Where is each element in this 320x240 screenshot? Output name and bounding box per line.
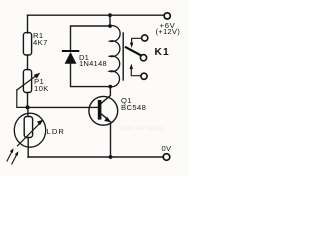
label +12V: [156, 27, 181, 36]
node coil/diode tee dot: [108, 24, 112, 28]
wire diode bottom to collector line: [71, 64, 111, 87]
terminal 0V: [163, 154, 170, 161]
label +6V: [160, 21, 176, 30]
diode D1 1N4148 cathode bar: [63, 50, 79, 52]
ghost print bleed text: [118, 125, 164, 132]
wire bottom 0V rail: [28, 156, 163, 158]
wire wiper return: [17, 90, 28, 107]
label R1: [33, 33, 48, 47]
wire junction to LDR: [27, 107, 29, 116]
diode D1 triangle: [65, 52, 77, 64]
LDR diagonal arrow: [18, 123, 41, 146]
label LDR: [47, 127, 66, 136]
relay contact top circle: [142, 35, 148, 41]
label D1: [79, 55, 107, 69]
wire tee left to diode top: [71, 26, 111, 50]
label P1: [34, 78, 49, 92]
wire left column from rail to R1: [27, 15, 29, 33]
wire P1 bottom to junction: [27, 93, 29, 108]
wire LDR bottom to 0V rail: [27, 138, 29, 158]
light arrow 1: [7, 151, 12, 161]
relay contact bottom arrow stub: [130, 64, 133, 69]
wire top rail +V: [28, 14, 164, 16]
LDR circle: [14, 113, 45, 147]
LDR resistor body: [24, 117, 32, 138]
terminal +6V: [164, 13, 170, 19]
node emitter junction dot: [109, 155, 113, 159]
transistor Q1 circle: [89, 96, 118, 125]
transistor Q1 emitter with arrow: [101, 114, 108, 120]
potentiometer P1 wiper arrow: [17, 75, 37, 90]
wire from rail dot down to coil/diode tee: [109, 15, 111, 26]
label Q1: [121, 97, 146, 112]
node collector junction dot: [108, 85, 112, 89]
label 0V: [162, 144, 172, 153]
label K1: [155, 47, 170, 58]
wire base line to Q1: [28, 106, 98, 108]
wire R1 to P1: [27, 55, 29, 70]
relay contact middle circle: [140, 55, 146, 61]
wire collector to transistor: [101, 87, 111, 104]
node junction dot base/LDR: [26, 105, 30, 109]
node junction dot on top rail: [108, 13, 112, 17]
potentiometer P1 10K body: [23, 70, 31, 93]
transistor Q1 base bar: [98, 100, 102, 120]
relay contact top lead with down arrow: [132, 38, 142, 43]
resistor R1 4K7: [23, 33, 31, 55]
relay coil K1 loops: [109, 26, 120, 87]
relay armature: [126, 47, 141, 55]
relay coil core line: [122, 33, 124, 80]
wire emitter to 0V rail: [110, 122, 112, 157]
light arrow 2: [12, 154, 17, 164]
relay contact bottom circle: [141, 73, 147, 79]
